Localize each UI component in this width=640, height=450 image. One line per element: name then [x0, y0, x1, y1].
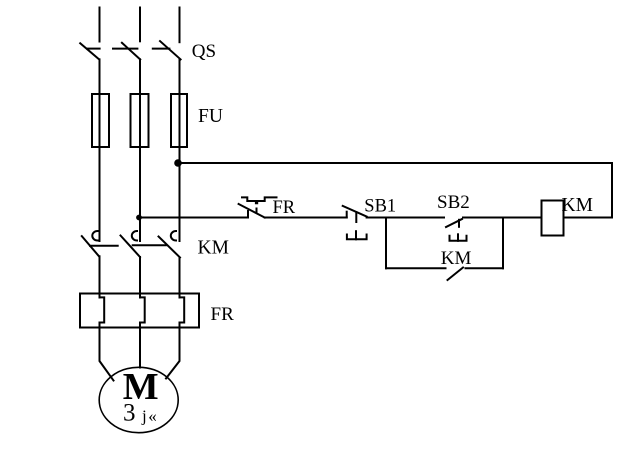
fuse FU2	[131, 94, 149, 147]
wire L1 switch through fuse down	[99, 59, 101, 241]
contactor KM main contact 1	[82, 231, 118, 256]
wire L1 FR to motor	[100, 323, 114, 381]
fuse FU3	[171, 94, 187, 147]
svg-text:KM: KM	[198, 238, 229, 259]
switch QS pole 3	[153, 41, 181, 59]
wire coil to right	[564, 217, 613, 219]
pushbutton SB2 NO	[446, 219, 467, 241]
contactor KM main contact 2	[121, 231, 166, 257]
wire L2 contact to FR	[139, 257, 141, 298]
wire L1 contact to FR	[99, 256, 101, 297]
contactor KM main contact 3	[159, 231, 181, 258]
svg-text:SB2: SB2	[437, 192, 470, 213]
wire L3 switch through fuse down	[179, 59, 181, 241]
contact FR NC	[239, 197, 277, 217]
svg-text:KM: KM	[562, 195, 593, 216]
node control tap on L3	[174, 159, 182, 167]
wire L2 top	[139, 8, 141, 42]
thermal relay FR heater 1	[100, 297, 105, 322]
branch bottom wire left	[386, 267, 446, 269]
pushbutton SB1 NC	[343, 206, 367, 239]
branch right wire	[502, 218, 504, 269]
branch left wire	[385, 218, 387, 269]
wire L2 switch through fuse down	[139, 59, 141, 241]
branch bottom wire right	[466, 267, 504, 269]
thermal relay FR box	[80, 294, 199, 328]
wire L1 top	[99, 8, 101, 42]
wire SB1 to SB2	[367, 217, 444, 219]
wire control right	[611, 163, 613, 218]
switch QS pole 1	[80, 43, 99, 59]
fuse FU1	[92, 94, 109, 147]
svg-text:SB1: SB1	[364, 196, 396, 216]
svg-text:QS: QS	[192, 41, 216, 62]
wire control top	[180, 162, 613, 164]
wire L2 FR to motor	[139, 323, 141, 368]
wire control from L2 tap	[139, 217, 248, 219]
svg-text:j«: j«	[141, 407, 158, 426]
svg-text:FR: FR	[273, 198, 296, 218]
svg-text:FU: FU	[198, 106, 223, 127]
svg-text:3: 3	[123, 400, 136, 427]
node control tap on L2	[136, 215, 142, 221]
thermal relay FR heater 2	[140, 297, 145, 322]
motor M circle	[99, 367, 178, 432]
svg-text:KM: KM	[441, 248, 472, 269]
svg-text:FR: FR	[211, 304, 235, 325]
contact KM aux NO	[448, 268, 464, 281]
wire L3 top	[179, 8, 181, 43]
switch QS pole 2	[113, 43, 140, 60]
wire FR to SB1	[265, 217, 347, 219]
coil KM	[542, 201, 564, 236]
wire L3 FR to motor	[166, 323, 180, 379]
wire L3 contact to FR	[179, 258, 181, 298]
wire SB2 to coil	[463, 217, 542, 219]
thermal relay FR heater 3	[180, 297, 185, 322]
